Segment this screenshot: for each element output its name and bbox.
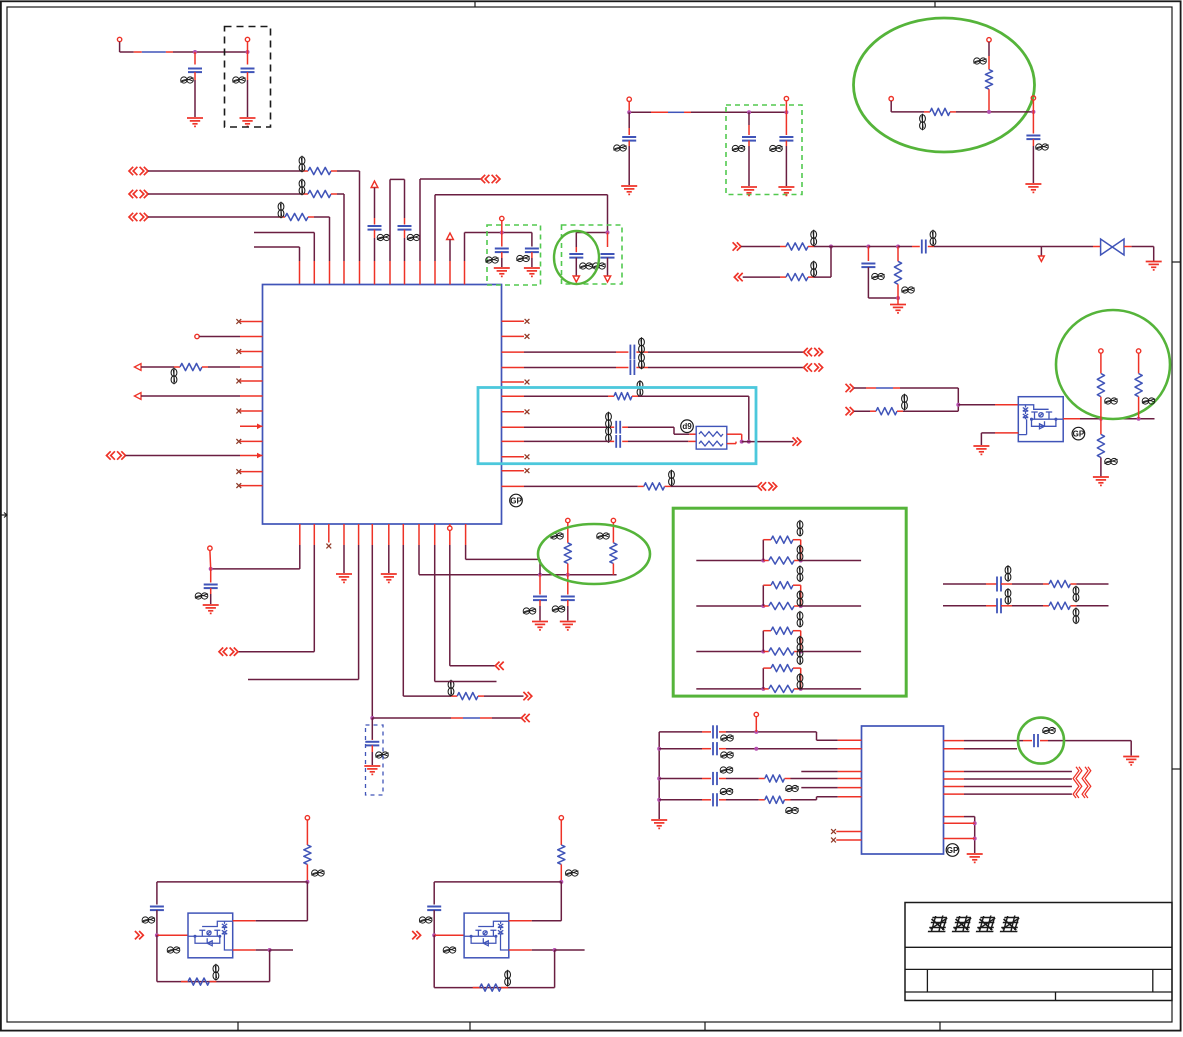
svg-text:GP: GP — [1073, 429, 1085, 438]
svg-text:GP: GP — [947, 846, 959, 855]
svg-text:GP: GP — [510, 496, 522, 505]
svg-text:d9: d9 — [682, 422, 692, 431]
